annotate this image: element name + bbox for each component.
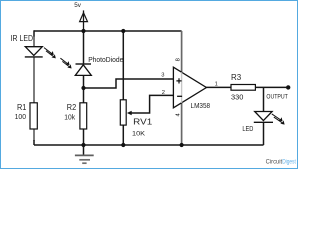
svg-text:330: 330 [231, 94, 244, 101]
svg-text:100: 100 [15, 114, 26, 121]
svg-text:LM358: LM358 [191, 101, 211, 110]
svg-text:8: 8 [176, 58, 182, 61]
svg-text:3: 3 [161, 72, 164, 78]
output terminal dot [286, 85, 290, 89]
photodiode incoming arrow 1 [60, 58, 69, 65]
junction node ground / R2 [81, 143, 85, 147]
wire RV1 column top [122, 31, 124, 100]
wire RV1 bottom [122, 125, 124, 145]
junction node photodiode / R2 / pin3 [81, 86, 85, 90]
resistor R2 [80, 103, 87, 129]
wire op-amp output to R3 [206, 86, 231, 88]
wire pin3 net from photodiode junction [84, 79, 174, 88]
wire photodiode bottom to R2 [83, 75, 85, 103]
svg-text:10k: 10k [64, 115, 75, 122]
svg-text:5v: 5v [74, 2, 82, 9]
resistor R1 [30, 103, 37, 129]
pin stub R1 bottom (gray) [33, 129, 35, 141]
wire output LED branch down [263, 87, 265, 111]
svg-text:CircuitDigest: CircuitDigest [266, 158, 296, 165]
pin stub IR LED top (gray) [33, 37, 35, 47]
ground symbol [75, 145, 94, 163]
power symbol 5v arrow [80, 10, 88, 31]
junction node ground / RV1 [121, 143, 125, 147]
resistor R3 [231, 85, 255, 91]
LED D3 output LED symbol [254, 112, 273, 123]
IR LED emission arrow 2 [46, 51, 56, 59]
junction node 5v rail / photodiode [81, 29, 85, 33]
junction node ground / op-amp pin4 [180, 143, 184, 147]
svg-text:IR LED: IR LED [11, 34, 34, 43]
svg-text:R1: R1 [17, 102, 27, 112]
svg-text:2: 2 [162, 90, 165, 96]
RV1 wiper arrow [127, 111, 132, 116]
svg-text:R2: R2 [67, 102, 77, 112]
potentiometer RV1 [120, 100, 126, 125]
wire pin2 net to RV1 wiper [130, 95, 174, 113]
wire R3 to output terminal [255, 86, 287, 88]
output LED emission arrow 1 [272, 114, 283, 122]
op-amp U1 LM358 [173, 67, 206, 108]
svg-text:1: 1 [215, 81, 218, 87]
photodiode D2 symbol [75, 64, 91, 75]
svg-text:10K: 10K [132, 130, 146, 137]
wire top 5V rail [34, 30, 182, 32]
wire output LED bottom to rail [263, 122, 265, 145]
junction node 5v rail / RV1 [121, 29, 125, 33]
wire photodiode column top [83, 31, 85, 63]
svg-text:R3: R3 [231, 72, 241, 82]
LED D1 IR LED symbol [25, 47, 43, 57]
svg-text:RV1: RV1 [133, 117, 152, 127]
pin stub IR LED to R1 (gray) [33, 57, 35, 103]
wire R1 to bottom rail [33, 140, 35, 145]
svg-text:LED: LED [242, 124, 253, 133]
output LED emission arrow 2 [274, 117, 285, 125]
wire op-amp power column (gray) [181, 31, 183, 145]
wire R2 bottom to ground rail [83, 129, 85, 145]
frame border [1, 1, 298, 169]
svg-text:OUTPUT: OUTPUT [266, 94, 288, 100]
IR LED emission arrow 1 [44, 48, 54, 56]
photodiode incoming arrow 2 [62, 61, 71, 68]
wire left column top [33, 30, 35, 37]
wire bottom rail [34, 144, 264, 146]
svg-text:PhotoDiode: PhotoDiode [88, 55, 123, 64]
